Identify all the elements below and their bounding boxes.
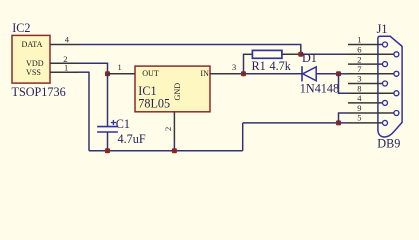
capacitor C1 top plate (97, 126, 118, 128)
wire DATA net horizontal from IC2 pin 4 to jog (79, 44, 302, 46)
svg-text:J1: J1 (377, 22, 388, 36)
diode D1 triangle (303, 67, 317, 81)
R1 right pin stub (282, 53, 300, 55)
svg-text:2: 2 (163, 127, 173, 131)
DB9 pin 9 circle (394, 111, 399, 116)
capacitor C1 plus sign (111, 122, 116, 124)
svg-text:4: 4 (65, 35, 70, 45)
svg-text:3: 3 (357, 74, 361, 84)
svg-text:4.7uF: 4.7uF (118, 132, 146, 146)
node junction ground / DB9 pin 9 elbow (336, 120, 341, 125)
node junction R1 right / DATA / DB9 pin 6 net (298, 52, 303, 57)
DB9 pin 6 stub (348, 53, 394, 55)
wire C1 bottom plate to ground rail (107, 132, 109, 151)
svg-text:5: 5 (357, 113, 361, 123)
svg-text:C1: C1 (116, 117, 130, 131)
node junction +5V at C1 top / OUT pin (105, 71, 110, 76)
wire to DB9 pin 6 (301, 53, 348, 55)
svg-text:8: 8 (357, 83, 361, 93)
wire IN net from IC1 pin 3 to diode cathode (238, 73, 302, 75)
wire DATA net vertical jog down to R1 output node (300, 45, 302, 55)
DB9 pin 7 stub (348, 73, 394, 75)
DB9 pin 1 circle (383, 42, 388, 47)
connector DB9 shell J1 (378, 36, 402, 137)
DB9 pin 7 circle (394, 71, 399, 76)
svg-text:VDD: VDD (26, 59, 44, 68)
svg-text:78L05: 78L05 (138, 97, 170, 111)
wire junction up to DB9 pin 9 (339, 113, 349, 123)
pin 2 stub of IC1 (GND) vertical (173, 112, 175, 140)
svg-text:IN: IN (200, 69, 209, 78)
svg-text:DATA: DATA (22, 40, 43, 49)
svg-text:R1: R1 (252, 59, 266, 73)
DB9 pin 2 circle (383, 62, 388, 67)
wire VDD net from IC2 pin 2 right (79, 62, 109, 64)
capacitor C1 wire from +5V node down to top plate (107, 74, 109, 127)
wire R1 feed vertical (243, 54, 245, 74)
DB9 pin 3 circle (383, 81, 388, 86)
wire ground net to DB9 pin 5 (243, 122, 348, 124)
svg-text:9: 9 (357, 103, 361, 113)
svg-text:OUT: OUT (142, 69, 159, 78)
DB9 pin 2 stub (348, 63, 382, 65)
node junction IC1 GND on ground rail (172, 148, 177, 153)
DB9 pin 8 stub (348, 92, 394, 94)
svg-text:VSS: VSS (26, 68, 41, 77)
svg-text:3: 3 (232, 62, 236, 72)
node junction C1 on ground rail (105, 148, 110, 153)
svg-text:4: 4 (357, 93, 362, 103)
regulator 78L05 body IC1 (135, 66, 210, 112)
DB9 pin 4 circle (383, 100, 388, 105)
wire ground rail horizontal (89, 150, 243, 152)
svg-text:1N4148: 1N4148 (300, 82, 339, 96)
DB9 pin 3 stub (348, 83, 382, 85)
wire R1 feed horizontal (left pin of R1) (243, 53, 253, 55)
svg-text:GND: GND (173, 83, 182, 101)
wire junction to DB9 pin 7 (339, 73, 349, 75)
node junction IN net / R1 feed (241, 71, 246, 76)
svg-text:1: 1 (118, 62, 122, 72)
svg-text:2: 2 (357, 54, 361, 64)
DB9 pin 6 circle (394, 52, 399, 57)
svg-text:4.7k: 4.7k (270, 59, 292, 73)
wire VSS net vertical down to ground rail (88, 72, 90, 151)
DB9 pin 9 stub (348, 112, 394, 114)
svg-text:6: 6 (357, 45, 361, 55)
capacitor C1 bottom plate (97, 131, 118, 133)
pin 1 stub of IC1 (OUT) (108, 73, 136, 75)
wire VSS net from IC2 pin 1 right (79, 71, 90, 73)
DB9 pin 1 stub (348, 44, 382, 46)
diode D1 cathode bar (301, 66, 303, 81)
svg-text:7: 7 (357, 64, 361, 74)
svg-text:1: 1 (357, 35, 361, 45)
DB9 pin 4 stub (348, 102, 382, 104)
wire VDD net vertical down to +5V node (107, 63, 109, 74)
pin 1 stub of IC2 (VSS) (50, 71, 79, 73)
wire junction down to DB9 pin 8 elbow (339, 74, 349, 93)
node junction D1 anode / DB9 pins 7+8 (336, 71, 341, 76)
svg-text:1: 1 (64, 63, 68, 73)
svg-text:IC2: IC2 (12, 21, 30, 35)
resistor R1 body (252, 50, 282, 58)
svg-text:DB9: DB9 (377, 136, 400, 150)
wire D1 anode to junction (316, 73, 338, 75)
svg-text:D1: D1 (302, 51, 317, 65)
DB9 pin 5 circle (383, 120, 388, 125)
ic TSOP1736 body IC2 (12, 35, 50, 83)
pin 3 stub of IC1 (IN) (210, 73, 238, 75)
svg-text:TSOP1736: TSOP1736 (12, 85, 66, 99)
DB9 pin 8 circle (394, 91, 399, 96)
wire ground rail right end up (242, 123, 244, 151)
pin 4 stub of IC2 (DATA) (50, 44, 79, 46)
DB9 pin 5 stub (348, 122, 382, 124)
wire GND pin to rail (173, 140, 175, 151)
pin 2 stub of IC2 (VDD) (50, 62, 79, 64)
